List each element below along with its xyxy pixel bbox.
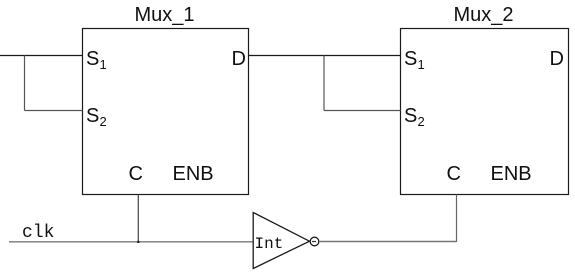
svg-text:S: S <box>404 105 417 127</box>
tick inside bubble <box>312 241 316 243</box>
svg-text:clk: clk <box>22 223 54 243</box>
svg-text:D: D <box>550 48 564 70</box>
wire: branch vertical to Mux_1 S2 <box>24 56 26 111</box>
svg-text:Int: Int <box>255 235 284 253</box>
svg-text:ENB: ENB <box>173 163 214 185</box>
inverter output bubble <box>310 237 319 246</box>
svg-text:Mux_2: Mux_2 <box>454 4 514 26</box>
wire: input to Mux_1 S1 <box>0 55 83 57</box>
svg-text:D: D <box>232 48 246 70</box>
svg-text:2: 2 <box>100 114 107 129</box>
svg-text:2: 2 <box>418 114 425 129</box>
wire: branch vertical to Mux_2 S2 <box>323 56 325 111</box>
svg-text:C: C <box>129 163 143 185</box>
wire: Mux_1 D to Mux_2 S1 <box>249 55 401 57</box>
wire: branch horizontal into Mux_1 S2 <box>25 110 83 112</box>
junction: clk / C1 <box>137 241 139 243</box>
mux block U2 (Mux_2) box <box>401 29 569 195</box>
inverter U3 triangle <box>253 213 309 269</box>
wire: Mux_2 C drop <box>456 195 458 243</box>
wire: Mux_1 C drop <box>137 195 139 243</box>
svg-text:ENB: ENB <box>491 163 532 185</box>
wire: branch horizontal into Mux_2 S2 <box>324 110 401 112</box>
svg-text:S: S <box>404 48 417 70</box>
svg-text:S: S <box>86 48 99 70</box>
svg-text:1: 1 <box>100 57 107 72</box>
svg-text:S: S <box>86 105 99 127</box>
svg-text:1: 1 <box>418 57 425 72</box>
wire: clk line <box>9 241 253 243</box>
svg-text:Mux_1: Mux_1 <box>135 4 195 26</box>
wire: inverter output <box>319 241 457 243</box>
mux block U1 (Mux_1) box <box>83 29 249 195</box>
svg-text:C: C <box>447 163 461 185</box>
